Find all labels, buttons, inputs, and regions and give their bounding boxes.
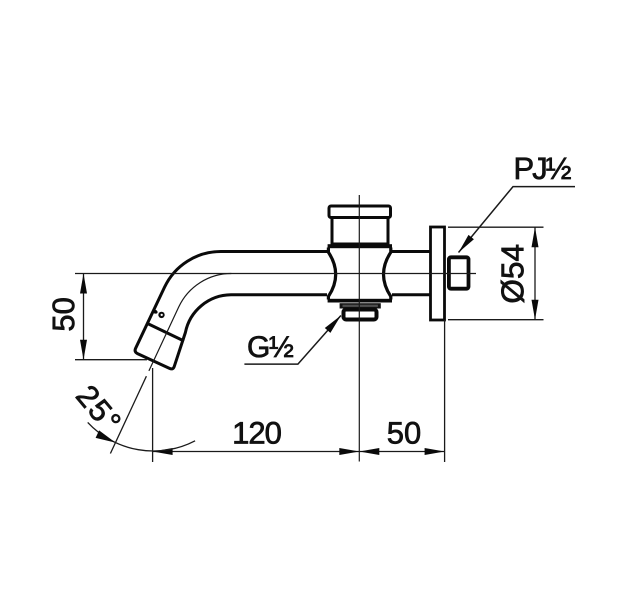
inlet tube top line [392, 250, 431, 253]
spout outline [135, 251, 327, 368]
text "50" (left, rotated) [53, 298, 75, 330]
angle ray 25 degrees [110, 376, 146, 453]
extension line wall [444, 320, 446, 462]
valve body right concave side [384, 248, 391, 300]
vertical centerline [358, 195, 360, 462]
valve body left concave side [328, 248, 335, 300]
extension line spout tip [152, 368, 154, 462]
arrow right 50 [425, 448, 445, 455]
text "25°" (rotated) [75, 384, 122, 434]
leader arrowhead PJ1/2 [459, 235, 474, 253]
wall flange [431, 227, 445, 320]
arrow left 120 [153, 448, 173, 455]
dimension line 50 left [83, 274, 85, 360]
angle arc arrowhead [96, 430, 116, 442]
arrow down 50 left [80, 340, 87, 360]
dimension line diameter 54 [534, 227, 536, 320]
arrow down diameter 54 [532, 300, 539, 320]
horizontal centerline [75, 273, 476, 275]
angle dimension arc [88, 422, 195, 451]
eco mark on spout [151, 309, 164, 319]
PJ1/2 fitting [449, 257, 469, 288]
G1/2 fitting collar [340, 303, 381, 308]
extension line spout outlet [75, 359, 147, 361]
inlet tube bottom line [392, 293, 431, 296]
arrow right 120 [339, 448, 359, 455]
G1/2 fitting body [344, 310, 377, 320]
arrow up 50 left [80, 274, 87, 294]
dimension line 120 and 50 [153, 451, 445, 453]
text "50" (bottom) [388, 422, 420, 444]
valve body bottom shoulder bar [328, 299, 392, 303]
extension line flange bottom [448, 319, 544, 321]
text "Ø54" (rotated) [501, 245, 524, 303]
arrow up diameter 54 [532, 227, 539, 247]
aerator seam line [148, 324, 185, 342]
leader line G1/2 [244, 316, 341, 365]
arrow left 50 [359, 448, 379, 455]
text "120" [235, 422, 281, 444]
valve body top shoulder bar [328, 244, 392, 248]
text "G½" [249, 336, 294, 357]
leader line PJ1/2 [459, 187, 576, 253]
bonnet cap top plate [329, 206, 391, 218]
leader arrowhead G1/2 [325, 316, 341, 333]
text "PJ½" [516, 158, 571, 180]
bonnet cap body [332, 218, 388, 245]
extension line flange top [448, 226, 544, 228]
spout axis centerline [149, 273, 231, 370]
